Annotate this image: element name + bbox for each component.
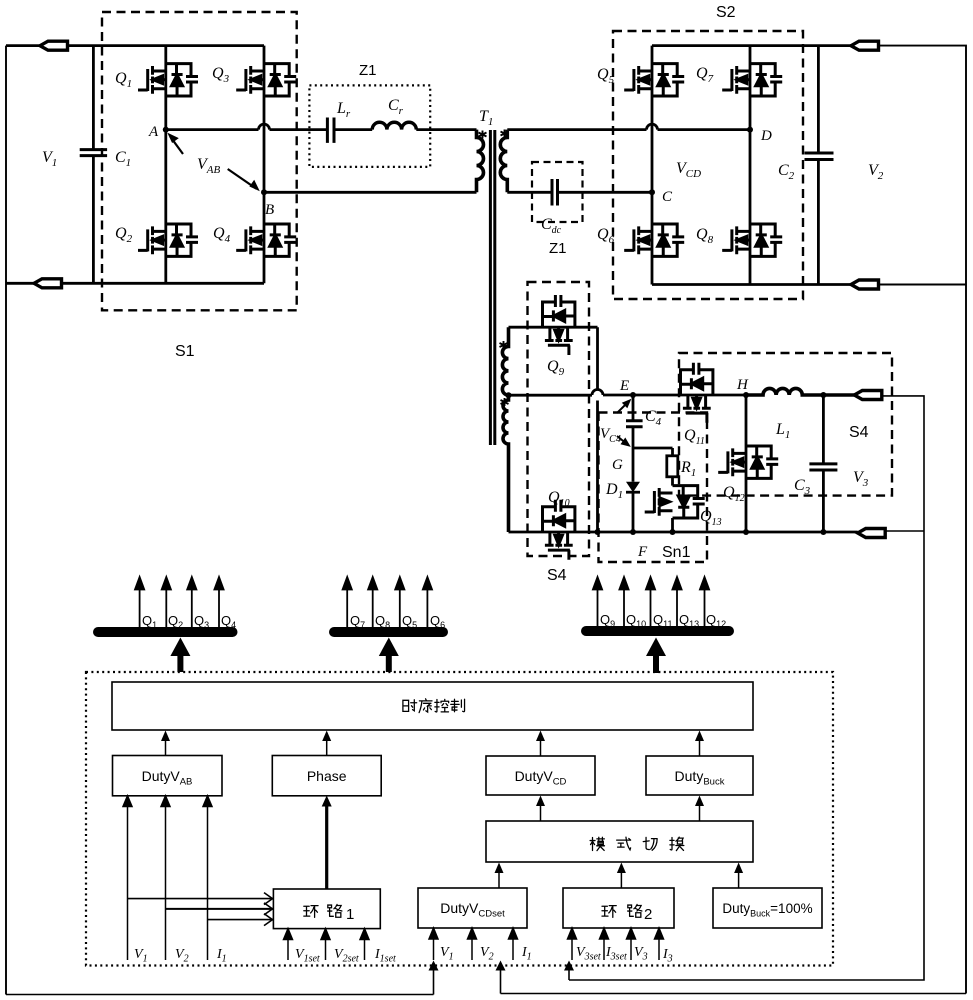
transformer T1 primary winding <box>477 130 484 193</box>
svg-text:Q1: Q1 <box>115 70 132 90</box>
taps into loop1 left <box>128 893 274 926</box>
svg-text:DutyVCD: DutyVCD <box>515 768 567 788</box>
capacitor Cdc <box>552 179 558 206</box>
svg-text:Sn1: Sn1 <box>662 544 691 561</box>
svg-text:Phase: Phase <box>307 768 347 784</box>
Z1 resonant tank dotted box <box>309 85 430 166</box>
node D <box>747 127 753 133</box>
transformer T1 secondary winding <box>500 130 507 193</box>
wire B to transformer <box>264 191 477 194</box>
transistor Q10 <box>543 500 575 560</box>
svg-text:Q12: Q12 <box>706 612 726 629</box>
svg-text:V3: V3 <box>853 469 869 489</box>
wire H leg down through Q12 <box>745 395 748 532</box>
svg-text:Q4: Q4 <box>213 225 231 245</box>
transistor Q11 <box>681 363 713 423</box>
capacitor C2 <box>805 46 834 285</box>
svg-text:V3set: V3set <box>576 945 601 963</box>
terminal V3 + <box>854 391 882 400</box>
sense entry arrow V2 <box>500 966 502 994</box>
sense entry arrow V3 <box>568 966 570 980</box>
svg-text:1: 1 <box>346 906 354 923</box>
block Phase <box>272 756 381 796</box>
thick arrow to bar 2 <box>386 652 392 672</box>
transformer T1 core <box>490 130 494 445</box>
wire Cr to transformer primary <box>416 128 476 131</box>
wire G down to D1 <box>632 448 635 532</box>
inputs V1set V2set I1set to loop1 <box>284 929 370 960</box>
resistor R1 <box>671 448 674 486</box>
svg-text:D: D <box>760 128 772 144</box>
wire S2 bottom rail <box>652 283 851 286</box>
wire S2 top rail <box>652 44 851 47</box>
svg-text:S4: S4 <box>547 567 567 584</box>
arrow mode to DutyBuck <box>699 803 701 821</box>
svg-text:L1: L1 <box>775 421 790 441</box>
inductor Cr coil <box>372 122 416 129</box>
transistor Q13 <box>645 486 705 518</box>
capacitor C4 branch <box>626 395 643 448</box>
svg-text:C: C <box>662 189 673 205</box>
svg-text:Q7: Q7 <box>696 65 714 85</box>
svg-text:V1: V1 <box>440 945 454 963</box>
svg-text:Q5: Q5 <box>402 613 417 630</box>
arrow mode to DutyVCD <box>540 803 542 821</box>
labels Q1 Q2 Q3 Q4 <box>142 613 236 630</box>
block loop1 <box>273 889 380 929</box>
svg-text:I1: I1 <box>216 947 227 965</box>
svg-text:Q10: Q10 <box>626 612 646 629</box>
wire secondary top to node D (hop over Q5 leg) <box>507 124 750 129</box>
transistor Q12 <box>718 446 778 478</box>
inputs V1 V2 I1 to DutyVCDset <box>429 928 518 960</box>
node C3-top <box>820 392 826 398</box>
transistor Q3 <box>236 64 296 96</box>
transistor Q5 <box>624 64 684 96</box>
arrow Phase to timing <box>326 738 328 756</box>
polarity dot secondary <box>501 130 509 138</box>
wire Q1-Q2 leg <box>164 46 167 284</box>
svg-text:Q2: Q2 <box>115 225 133 245</box>
S4 tall dashed box around Q9 Q10 <box>528 282 590 556</box>
transistor Q6 <box>624 224 684 256</box>
arrow DutyBuck100 to mode <box>738 870 740 888</box>
svg-text:S1: S1 <box>175 343 195 360</box>
node C3-rail <box>820 529 826 535</box>
polarity dot third lower <box>501 398 509 406</box>
svg-text:DutyBuck: DutyBuck <box>675 768 725 788</box>
svg-text:F: F <box>637 544 648 560</box>
wire Lr to Cr <box>334 128 372 131</box>
gate arrows Q7 Q8 Q5 Q6 <box>343 577 432 627</box>
svg-text:Q11: Q11 <box>684 427 705 447</box>
svg-text:V2: V2 <box>868 162 884 182</box>
controller dotted box <box>86 672 833 966</box>
gate bus bar 1 <box>93 627 238 637</box>
capacitor C1 <box>80 46 107 284</box>
capacitor C3 <box>809 395 837 532</box>
svg-text:DutyBuck=100%: DutyBuck=100% <box>722 901 812 919</box>
polarity dot primary <box>479 131 487 139</box>
node Q13-rail <box>670 529 676 535</box>
wire V3 sense loop <box>569 396 924 980</box>
svg-text:E: E <box>619 378 629 394</box>
svg-text:Q8: Q8 <box>375 613 390 630</box>
transistor Q7 <box>722 64 782 96</box>
wire bottom input rail <box>6 282 264 285</box>
transistor Q2 <box>138 224 198 256</box>
node rail-Q9Q10 <box>595 529 601 535</box>
svg-text:C2: C2 <box>778 162 795 182</box>
transistor Q8 <box>722 224 782 256</box>
svg-text:S4: S4 <box>849 424 869 441</box>
svg-text:Cr: Cr <box>388 97 404 117</box>
block loop2 <box>563 888 674 928</box>
wire top input rail <box>6 44 264 47</box>
block mode switch <box>486 821 753 862</box>
svg-text:I1set: I1set <box>374 947 396 965</box>
node H <box>743 392 749 398</box>
svg-text:I3: I3 <box>662 947 673 965</box>
svg-text:V1set: V1set <box>295 947 320 965</box>
svg-text:I3set: I3set <box>605 945 627 963</box>
wire Q13 to rail <box>671 518 674 532</box>
node E <box>630 392 636 398</box>
diode D1 <box>626 482 640 492</box>
svg-text:C3: C3 <box>794 477 811 497</box>
svg-text:Q3: Q3 <box>212 65 230 85</box>
svg-text:I1: I1 <box>521 945 532 963</box>
transistor Q9 <box>543 295 575 355</box>
svg-text:Q13: Q13 <box>679 612 699 629</box>
svg-text:Q7: Q7 <box>350 613 365 630</box>
inductor L1 coil <box>746 388 858 395</box>
node B <box>261 189 267 195</box>
gate arrows Q9 Q10 Q11 Q13 Q12 <box>593 577 709 626</box>
Z1 secondary dashed box <box>532 162 583 222</box>
block DutyBuck <box>646 756 753 795</box>
svg-text:DutyVAB: DutyVAB <box>142 768 193 788</box>
svg-text:Q8: Q8 <box>696 226 714 246</box>
capacitor Lr <box>327 118 334 143</box>
wire secondary bottom to node C through Cdc <box>507 191 652 194</box>
svg-text:VAB: VAB <box>197 156 221 176</box>
svg-text:T1: T1 <box>479 108 493 128</box>
transformer third winding upper <box>502 327 508 395</box>
svg-text:B: B <box>265 202 274 218</box>
svg-text:Cdc: Cdc <box>541 216 562 236</box>
arrow DutyBuck to timing <box>699 738 701 756</box>
node center tap <box>506 392 512 398</box>
svg-text:Q1: Q1 <box>142 613 157 630</box>
svg-text:C4: C4 <box>645 408 662 428</box>
svg-text:Z1: Z1 <box>359 62 377 79</box>
node D1-rail <box>630 529 636 535</box>
sense entry arrow V1 <box>433 966 435 995</box>
svg-text:VCD: VCD <box>676 160 701 180</box>
svg-text:DutyVCDset: DutyVCDset <box>440 900 505 920</box>
svg-text:Q9: Q9 <box>600 612 615 629</box>
inputs V1 V2 I1 to DutyVAB <box>123 796 212 960</box>
terminal input - <box>34 279 62 288</box>
arrow DutyVCDset to mode <box>498 870 500 888</box>
wire G to R1 <box>633 447 673 450</box>
svg-text:Q3: Q3 <box>194 613 209 630</box>
arrow DutyVAB to timing <box>165 738 167 756</box>
wire winding top to Q9 to vertical <box>509 327 598 532</box>
svg-text:Q11: Q11 <box>653 612 672 629</box>
svg-text:Lr: Lr <box>336 100 351 120</box>
node A <box>163 127 169 133</box>
inputs V3set I3set V3 I3 to loop2 <box>568 928 664 960</box>
S1 dashed box <box>102 12 297 310</box>
svg-text:Q13: Q13 <box>700 508 722 528</box>
svg-text:V2: V2 <box>175 947 189 965</box>
svg-text:Z1: Z1 <box>549 240 567 257</box>
wire bottom buck rail <box>509 531 858 534</box>
svg-text:2: 2 <box>644 906 652 923</box>
wire Q3-Q4 leg <box>263 46 266 284</box>
svg-text:Q6: Q6 <box>430 613 445 630</box>
thick arrow to bar 3 <box>653 652 659 673</box>
S2 dashed box <box>613 31 803 299</box>
node Q12-rail <box>743 529 749 535</box>
wire Q7-Q8 leg <box>749 46 752 285</box>
svg-text:A: A <box>148 124 159 140</box>
svg-text:V2: V2 <box>480 945 494 963</box>
svg-text:V1: V1 <box>134 947 148 965</box>
gate arrows Q1-Q4 <box>135 577 224 627</box>
svg-text:H: H <box>736 377 749 393</box>
svg-text:Q4: Q4 <box>221 613 236 630</box>
terminal input + <box>40 41 68 50</box>
polarity dot third upper <box>500 341 508 349</box>
labels Q9 Q10 Q11 Q13 Q12 <box>600 612 726 629</box>
transistor Q4 <box>236 224 296 256</box>
arrow DutyVCD to timing <box>540 738 542 756</box>
transformer third winding lower <box>503 395 508 532</box>
labels Q7 Q8 Q5 Q6 <box>350 613 445 630</box>
svg-text:S2: S2 <box>716 4 736 21</box>
svg-text:R1: R1 <box>680 459 696 479</box>
Sn1 dashed box <box>599 413 708 563</box>
S4 buck dashed box <box>679 353 892 496</box>
gate bus bar 2 <box>329 627 448 637</box>
terminal V3 - <box>858 529 886 538</box>
thick arrow to bar 1 <box>177 652 183 672</box>
wire Q5-Q6 leg <box>651 46 654 285</box>
block DutyVAB <box>113 756 223 796</box>
terminal V2 - <box>851 280 879 289</box>
block DutyVCDset <box>418 888 527 928</box>
svg-text:Q9: Q9 <box>547 358 565 378</box>
arrow loop2 to mode <box>620 870 622 888</box>
wire V2 sense bottom <box>501 993 967 995</box>
svg-text:D1: D1 <box>605 481 623 501</box>
svg-text:G: G <box>612 457 623 473</box>
svg-text:V1: V1 <box>42 149 57 169</box>
block DutyBuck 100% <box>713 888 822 928</box>
block timing control <box>112 682 753 730</box>
wire left rail V1 loop <box>5 46 7 995</box>
svg-text:V2set: V2set <box>334 947 359 965</box>
gate bus bar 3 <box>581 626 734 636</box>
node C <box>649 189 655 195</box>
svg-text:Q12: Q12 <box>723 484 745 504</box>
block DutyVCD <box>486 756 595 795</box>
svg-text:V3: V3 <box>634 945 648 963</box>
thick arrow loop1 to Phase <box>325 803 328 889</box>
svg-text:C1: C1 <box>115 149 131 169</box>
transistor Q1 <box>138 64 198 96</box>
wire E rail from center tap (hop over Q9 vertical) <box>509 390 747 396</box>
wire V2 right loop and sense rail <box>879 46 966 994</box>
svg-text:Q2: Q2 <box>168 613 183 630</box>
wire A to resonant tank (hop over Q3 leg) <box>166 124 328 129</box>
wire V1 sense bottom <box>6 994 434 996</box>
terminal V2 + <box>851 41 879 50</box>
